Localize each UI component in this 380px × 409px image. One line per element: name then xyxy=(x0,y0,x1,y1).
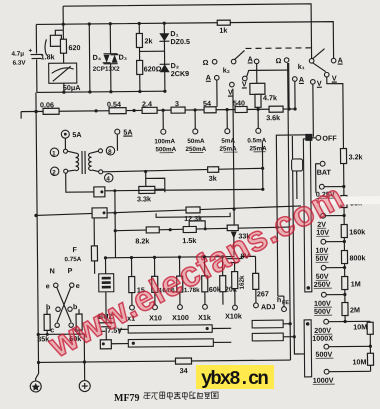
svg-text:1000X: 1000X xyxy=(312,334,333,343)
svg-text:A: A xyxy=(299,75,304,84)
svg-text:1000V: 1000V xyxy=(313,376,334,385)
label circled 1 xyxy=(50,148,58,156)
svg-text:Ω: Ω xyxy=(203,58,209,67)
svg-text:162k: 162k xyxy=(239,275,246,290)
svg-text:3.3k: 3.3k xyxy=(137,194,151,203)
svg-text:2.4: 2.4 xyxy=(142,99,152,108)
svg-text:3.6k: 3.6k xyxy=(266,113,280,122)
svg-text:5A: 5A xyxy=(72,130,81,139)
contact V k1 xyxy=(324,72,329,77)
switch arm over 3.3k xyxy=(146,178,165,186)
resistor 0.54 xyxy=(109,108,126,114)
svg-text:100mA: 100mA xyxy=(154,138,175,145)
terminal 0.5mA/25mA xyxy=(256,128,261,133)
svg-text:50mA: 50mA xyxy=(187,138,205,145)
svg-text:1.5k: 1.5k xyxy=(182,236,196,245)
svg-text:V: V xyxy=(242,79,247,88)
wire mid link xyxy=(140,50,165,52)
terminal 500V xyxy=(324,344,329,349)
svg-text:DZ0.5: DZ0.5 xyxy=(170,37,190,46)
resistor 3.2k xyxy=(340,148,346,163)
svg-text:ybx8.cn: ybx8.cn xyxy=(201,368,268,390)
svg-text:X10k: X10k xyxy=(225,312,242,321)
connector box B1 xyxy=(94,187,105,197)
svg-text:MF79: MF79 xyxy=(114,393,140,404)
terminal BAT xyxy=(320,161,325,166)
wire socket bottom xyxy=(38,333,84,335)
terminal 5A open xyxy=(115,129,120,134)
node junction xyxy=(88,22,91,25)
wire left bus xyxy=(36,92,39,373)
wire long vertical v2 xyxy=(288,63,291,360)
svg-text:0.5mA: 0.5mA xyxy=(247,137,266,144)
diode D3 xyxy=(112,55,118,63)
node xyxy=(88,90,91,93)
wire k2 V to bus xyxy=(247,70,289,76)
svg-text:Ω: Ω xyxy=(276,56,282,65)
resistor 3k xyxy=(208,167,219,173)
svg-text:160k: 160k xyxy=(349,227,365,236)
diode D1 DZ0.5 xyxy=(163,23,166,91)
resistor 3.6k xyxy=(269,106,283,112)
resistor 1.5k trimmer xyxy=(183,226,196,232)
contact A low k1 xyxy=(292,77,297,82)
svg-text:60k: 60k xyxy=(209,285,221,294)
svg-text:2: 2 xyxy=(52,169,56,176)
wire vertical v3 xyxy=(292,136,304,354)
svg-text:2k: 2k xyxy=(144,36,152,45)
svg-text:A: A xyxy=(248,54,253,63)
terminal X10k xyxy=(233,305,238,310)
resistor 2M xyxy=(342,302,348,315)
svg-text:2CP13X2: 2CP13X2 xyxy=(93,66,121,73)
resistor 160k xyxy=(341,224,347,237)
probe terminal star xyxy=(30,381,41,392)
svg-text:+: + xyxy=(28,48,32,55)
svg-text:5A: 5A xyxy=(123,128,132,137)
tall wafer bar 2 xyxy=(304,320,312,377)
svg-text:10M: 10M xyxy=(353,322,367,331)
svg-text:2CK9: 2CK9 xyxy=(171,69,189,78)
trimmer box xyxy=(50,35,61,46)
slide bar L1 xyxy=(128,325,212,333)
svg-text:34: 34 xyxy=(180,366,188,375)
contact V low k2 xyxy=(230,82,235,87)
terminal 10V/50V xyxy=(321,239,326,244)
slide bar L2 xyxy=(128,339,213,347)
wire L channel xyxy=(276,135,310,296)
resistor 3 xyxy=(171,107,185,113)
svg-text:k₂: k₂ xyxy=(223,66,230,75)
svg-text:ADJ: ADJ xyxy=(261,302,275,311)
resistor 2.4 xyxy=(142,107,157,113)
svg-text:500V: 500V xyxy=(315,350,332,359)
wire to plus probe xyxy=(83,334,85,380)
slide bar R1 xyxy=(252,320,283,328)
battery 7.5V xyxy=(105,292,107,323)
svg-text:FE: FE xyxy=(282,300,289,306)
bottom bus xyxy=(39,360,291,362)
wire top bus xyxy=(63,4,312,61)
resistor 800k xyxy=(341,250,347,263)
svg-text:3: 3 xyxy=(175,99,179,108)
svg-text:12.3k: 12.3k xyxy=(184,214,202,223)
svg-text:250V: 250V xyxy=(314,280,331,289)
svg-text:e: e xyxy=(76,281,80,290)
wire xyxy=(62,6,64,24)
contact V right k2 xyxy=(242,76,247,81)
terminal 5mA/25mA xyxy=(226,110,228,129)
svg-text:3.2k: 3.2k xyxy=(349,152,363,161)
resistor 4.7k xyxy=(255,94,261,107)
bus B xyxy=(115,227,289,231)
label circled 4 xyxy=(104,174,112,182)
svg-text:1k: 1k xyxy=(219,26,227,35)
svg-text:10M: 10M xyxy=(352,357,366,366)
svg-text:1M: 1M xyxy=(351,279,361,288)
svg-text:10V: 10V xyxy=(316,228,329,237)
resistor 54 xyxy=(204,107,216,113)
probe terminal plus xyxy=(79,380,90,391)
node xyxy=(163,22,166,25)
buzzer BUZ xyxy=(105,258,107,274)
node dots on bus xyxy=(34,110,37,113)
terminal 50V/250V xyxy=(321,265,326,270)
terminal X10 xyxy=(153,305,158,310)
terminal 200V/1000V xyxy=(324,319,329,324)
label circled 2 xyxy=(50,167,58,175)
svg-text:500V: 500V xyxy=(314,307,331,316)
svg-text:50V: 50V xyxy=(315,254,328,263)
terminal 5A ring xyxy=(64,138,66,149)
svg-text:b: b xyxy=(73,302,78,311)
svg-text:0.75A: 0.75A xyxy=(64,256,81,263)
svg-text:BAT: BAT xyxy=(317,168,332,177)
tall wafer bar 1 xyxy=(303,139,311,292)
connector box B3 xyxy=(100,340,111,349)
svg-text:e: e xyxy=(46,281,50,290)
terminal 2V/10V xyxy=(321,213,326,218)
resistor 3.3k xyxy=(139,186,155,193)
resistor 1M xyxy=(342,276,348,289)
slide bar R2 xyxy=(252,333,283,341)
box under k2 A contact xyxy=(256,63,258,83)
svg-text:F: F xyxy=(72,245,77,254)
socket cross wires xyxy=(57,287,71,322)
wire right drop xyxy=(261,142,263,189)
resistor 620ohm xyxy=(137,60,143,74)
resistor 0.06 xyxy=(43,108,59,114)
terminal ADJ xyxy=(254,303,259,308)
svg-text:6.3V: 6.3V xyxy=(13,60,27,67)
resistor 35k xyxy=(44,314,50,330)
resistor 60k xyxy=(203,257,205,276)
resistor 8.2k xyxy=(146,227,159,233)
svg-text:800k: 800k xyxy=(349,253,365,262)
svg-text:3k: 3k xyxy=(209,174,217,183)
resistor 60k xyxy=(76,314,82,330)
svg-text:540: 540 xyxy=(233,98,245,107)
svg-text:0.54: 0.54 xyxy=(107,100,121,109)
resistor 540 xyxy=(235,106,247,112)
svg-text:8.2k: 8.2k xyxy=(135,236,149,245)
svg-text:N: N xyxy=(50,266,55,275)
node xyxy=(62,91,65,94)
resistor 267 xyxy=(254,256,256,273)
resistor 164.6 xyxy=(154,257,156,276)
resistor 162k vertical xyxy=(232,272,238,289)
resistor 12.3k xyxy=(186,207,200,213)
svg-text:4.7k: 4.7k xyxy=(263,93,277,102)
terminal 100V/500V xyxy=(321,292,326,297)
resistor 20k xyxy=(221,257,223,276)
dashed link k2-k1 xyxy=(245,47,315,50)
wire right side of meter cell xyxy=(88,24,91,92)
switch k1 pivot xyxy=(309,59,314,64)
resistor 620 xyxy=(62,24,64,39)
svg-text:267: 267 xyxy=(257,289,269,298)
resistor 2k branch xyxy=(138,23,141,91)
svg-text:X1k: X1k xyxy=(198,313,211,322)
wire second bus xyxy=(36,22,333,62)
connector box B2 xyxy=(92,208,107,218)
svg-text:V: V xyxy=(332,74,337,83)
underline marks xyxy=(159,151,335,386)
svg-text:1: 1 xyxy=(52,150,56,157)
svg-text:500mA: 500mA xyxy=(155,146,176,153)
svg-text:k₁: k₁ xyxy=(298,62,305,71)
switch k2 pivot xyxy=(231,59,236,64)
svg-text:2M: 2M xyxy=(350,305,360,314)
wire shunt bus left hook xyxy=(20,112,22,119)
svg-text:25mA: 25mA xyxy=(249,145,267,152)
svg-text:250mA: 250mA xyxy=(185,146,206,153)
terminal 1000V xyxy=(324,369,329,374)
svg-text:0.06: 0.06 xyxy=(40,100,54,109)
terminal X1k xyxy=(203,304,208,309)
terminal 50mA/250mA xyxy=(194,110,196,129)
resistor 10M upper xyxy=(369,321,371,371)
bus A xyxy=(36,206,301,216)
resistor 10M lower xyxy=(367,353,373,365)
meter M 50uA xyxy=(49,63,77,83)
bus C xyxy=(106,257,235,258)
wire k1 A-low stem xyxy=(294,81,296,109)
wire meter bottom rail xyxy=(37,91,165,92)
wire k1 V to right column xyxy=(327,77,345,322)
svg-text:D₃: D₃ xyxy=(119,53,128,62)
terminal OFF xyxy=(316,135,321,140)
svg-text:V: V xyxy=(317,79,322,88)
terminal 100mA/500mA xyxy=(162,110,164,129)
svg-text:A: A xyxy=(206,73,211,82)
terminal 0.25V xyxy=(319,184,324,189)
caption CJK pseudo glyphs xyxy=(144,392,218,399)
watermark elecfans xyxy=(42,177,351,366)
wire k1 V-low stem xyxy=(312,84,315,137)
contact V low k1 xyxy=(311,79,316,84)
terminal x1 xyxy=(130,305,135,310)
svg-text:4.7μ: 4.7μ xyxy=(12,51,25,58)
white band xyxy=(310,196,380,205)
contact A top k1 xyxy=(331,58,336,63)
resistor 35k right (under white band) xyxy=(341,195,347,207)
svg-text:620: 620 xyxy=(68,43,80,52)
svg-text:25mA: 25mA xyxy=(219,146,237,153)
svg-text:4: 4 xyxy=(106,176,110,183)
svg-text:A: A xyxy=(338,56,343,65)
svg-text:X100: X100 xyxy=(172,313,189,322)
resistor 15 xyxy=(131,258,133,277)
label circled 8 xyxy=(106,147,114,155)
svg-text:8: 8 xyxy=(108,149,112,156)
svg-text:P: P xyxy=(68,266,73,275)
resistor 1.78k xyxy=(178,257,180,276)
ybx8.cn badge xyxy=(196,365,274,389)
transformer T1 xyxy=(63,149,67,153)
wire from winding 4 xyxy=(103,168,263,172)
resistor 34 xyxy=(175,358,191,364)
wire shunt bus xyxy=(21,109,296,112)
contact e right xyxy=(70,283,74,287)
svg-text:D₄: D₄ xyxy=(93,53,102,62)
wire k2 A-low stem xyxy=(216,80,218,107)
svg-text:OFF: OFF xyxy=(322,134,337,143)
wire from winding 2 xyxy=(66,173,94,192)
svg-text:620Ω: 620Ω xyxy=(144,64,162,73)
capacitor C 4.7u branch xyxy=(35,24,37,53)
svg-text:1.8k: 1.8k xyxy=(41,52,55,61)
node xyxy=(109,22,112,25)
terminal X100 xyxy=(178,305,183,310)
node xyxy=(138,22,141,25)
resistor 1k xyxy=(217,20,230,25)
svg-text:54: 54 xyxy=(203,99,211,108)
diode D4 xyxy=(109,24,111,54)
component box SB xyxy=(292,159,303,171)
resistor 33k pot xyxy=(233,89,234,226)
svg-text:V: V xyxy=(228,88,233,97)
svg-text:50μA: 50μA xyxy=(63,83,81,92)
node junction xyxy=(62,23,65,26)
diode D2 2CK9 xyxy=(160,64,170,72)
